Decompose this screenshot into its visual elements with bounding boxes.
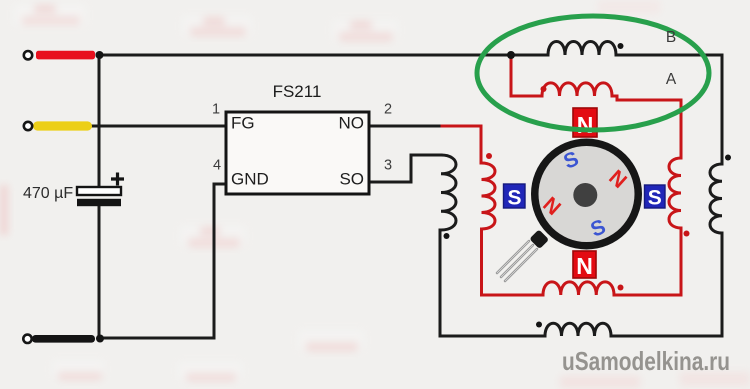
phase dot left black coil [444, 233, 450, 239]
phase dot coil A [541, 86, 547, 92]
junction node top rail / left vertical [96, 51, 104, 59]
wire: top rail right part [616, 54, 722, 57]
inductor right black coil [710, 164, 722, 233]
phase dot bottom black coil [536, 322, 542, 328]
wire: FG pin 1 from yellow lead [92, 125, 226, 128]
phase dot coil B [618, 43, 624, 49]
wire: main left vertical (split at capacitor) [98, 55, 101, 338]
wire: top rail left part (V+ rail) [97, 54, 548, 57]
phase dot right black coil [725, 155, 731, 161]
wire: ground rail to GND pin 4 [99, 184, 226, 338]
svg-text:FS211: FS211 [273, 82, 322, 101]
capacitor C1 470uF [23, 173, 124, 207]
wire: junction to coil A [511, 55, 542, 96]
svg-text:B: B [666, 29, 676, 46]
phase dot left red coil [486, 153, 492, 159]
inductor coil A (top red winding) [542, 83, 612, 96]
wire: right red vertical top [612, 96, 681, 158]
svg-text:S: S [507, 187, 521, 210]
wire: bottom rail right part [611, 335, 722, 338]
svg-text:470 µF: 470 µF [23, 185, 73, 202]
junction node ground rail [96, 335, 104, 343]
op-amp / driver IC U1 FS211 [212, 82, 392, 194]
svg-text:NO: NO [339, 114, 365, 133]
svg-text:2: 2 [384, 102, 392, 118]
svg-text:uSamodelkina.ru: uSamodelkina.ru [562, 346, 730, 376]
hall sensor Q1 (TO-92) [497, 229, 549, 281]
wire: NO pin red segment down to left red coil [442, 126, 481, 163]
wire: bottom rail left part [440, 335, 545, 338]
svg-text:1: 1 [212, 102, 220, 118]
terminal lead red (+) [36, 51, 95, 60]
svg-text:S: S [648, 187, 662, 210]
inductor left red coil [482, 163, 496, 229]
phase dot bottom red coil [618, 285, 624, 291]
green highlight ellipse [477, 16, 709, 130]
svg-text:FG: FG [231, 114, 255, 133]
inductor left black coil [441, 155, 456, 230]
wire: right vertical upper [721, 55, 724, 164]
stator magnet S left [504, 184, 526, 208]
inductor bottom black coil [545, 323, 611, 336]
inductor bottom red coil [543, 282, 614, 295]
wire: SO pin 3 to left coil [369, 155, 441, 182]
stator magnet N bottom [573, 251, 596, 278]
stator magnet N top [573, 108, 597, 137]
terminal lead black (GND) [32, 335, 95, 343]
stator magnet S right [645, 185, 666, 208]
svg-text:4: 4 [213, 158, 221, 174]
svg-text:SO: SO [339, 170, 364, 189]
svg-text:GND: GND [231, 170, 269, 189]
svg-text:A: A [666, 71, 677, 88]
phase dot right red coil [684, 231, 690, 237]
inductor coil B (top horizontal winding) [548, 42, 616, 56]
junction node top rail / red branch [507, 51, 515, 59]
svg-text:N: N [576, 253, 593, 279]
wire: NO pin 2 black segment [369, 125, 442, 128]
wire: left red vertical to bottom [482, 229, 544, 295]
wire: right vertical lower [721, 233, 724, 336]
wire: left motor branch vertical [439, 230, 442, 336]
terminal lead yellow (FG) [33, 121, 92, 130]
svg-text:3: 3 [384, 158, 392, 174]
svg-text:N: N [577, 112, 594, 138]
inductor right red coil [669, 158, 681, 228]
wire: bottom red to right corner [614, 228, 681, 295]
rotor disc [531, 139, 642, 250]
